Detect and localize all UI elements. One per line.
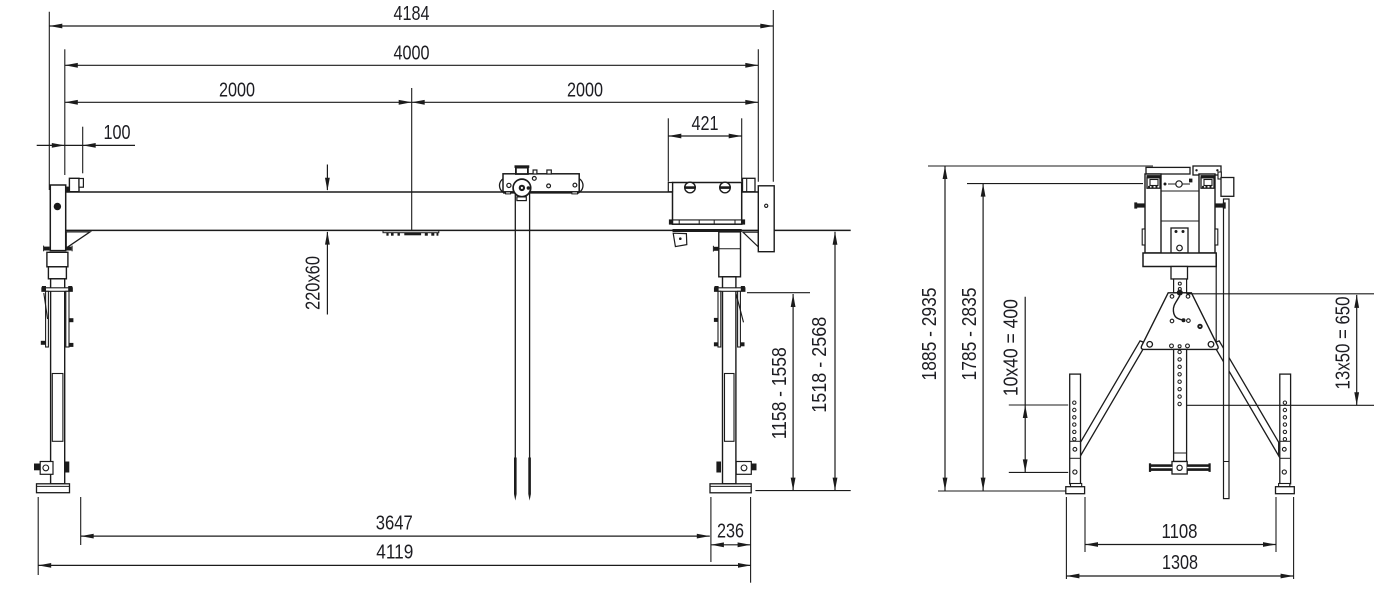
extension line rv foot inner right xyxy=(1275,497,1277,552)
weld wedge xyxy=(66,187,69,192)
trolley bottom edge xyxy=(503,191,579,193)
beam top flange line xyxy=(66,191,759,193)
left foot post xyxy=(1070,374,1081,484)
beam section top plate left xyxy=(1146,167,1190,174)
svg-text:1108: 1108 xyxy=(1162,521,1198,543)
right foot pad xyxy=(1279,484,1290,487)
pivot plate edge xyxy=(1215,255,1217,349)
right foot post xyxy=(1280,374,1291,484)
svg-text:13x50 = 650: 13x50 = 650 xyxy=(1333,297,1355,390)
extension line top 2835 xyxy=(967,183,1143,185)
trolley wheel right xyxy=(567,178,583,194)
svg-text:4184: 4184 xyxy=(394,3,430,25)
tilted bracket xyxy=(673,233,687,246)
svg-text:4119: 4119 xyxy=(376,542,413,564)
dimension 421 xyxy=(668,113,741,138)
hoist hook tip right xyxy=(528,458,531,495)
left leg collar xyxy=(47,252,68,266)
trolley body xyxy=(503,174,579,192)
carriage strip nubs xyxy=(669,219,673,224)
right leg collar pin xyxy=(714,247,719,251)
dimension 2000 right xyxy=(412,79,759,104)
hoist pulley xyxy=(513,179,531,197)
extension line ground right view xyxy=(938,490,1066,492)
dimension 4119 xyxy=(38,542,751,568)
dimension 1518-2568 xyxy=(809,232,838,491)
triangle holes top xyxy=(1170,295,1174,299)
handle left xyxy=(1151,464,1172,471)
left clamp plate outer xyxy=(46,291,49,347)
side tab right xyxy=(1215,229,1218,245)
carriage strip line xyxy=(673,219,742,221)
beam end stop left xyxy=(69,178,79,191)
left foot pad xyxy=(1071,484,1082,487)
extension line holes bottom xyxy=(1009,471,1068,473)
triangle holes bottom xyxy=(1147,342,1153,348)
beam section top plate right xyxy=(1193,166,1221,175)
right tower xyxy=(1199,174,1215,253)
left leg tube xyxy=(51,279,65,484)
dimension 4000 xyxy=(65,42,759,67)
tower mid lines xyxy=(1161,190,1199,192)
end plate xyxy=(758,186,774,252)
extension line beam left end xyxy=(64,49,66,175)
trolley feet tabs xyxy=(506,192,511,194)
dimension 3647 xyxy=(81,513,710,539)
centerline beam middle xyxy=(411,88,413,231)
left tower xyxy=(1145,174,1161,253)
post upper xyxy=(1174,279,1187,293)
svg-text:1308: 1308 xyxy=(1162,552,1198,574)
handle block xyxy=(1172,462,1187,475)
extension line rv foot inner left xyxy=(1084,497,1086,552)
carriage lower dark band xyxy=(673,229,742,232)
dimension 1108 xyxy=(1085,521,1276,547)
dimension 13x50=650 xyxy=(1333,295,1360,405)
svg-text:1518 - 2568: 1518 - 2568 xyxy=(809,317,831,413)
dimension 2000 left xyxy=(65,79,412,104)
extension line clamp top xyxy=(747,292,810,294)
svg-text:236: 236 xyxy=(717,521,744,543)
triangle holes mid xyxy=(1170,319,1174,323)
dimension 4184 xyxy=(49,3,773,28)
side tab left xyxy=(1142,229,1145,245)
left bottom bracket xyxy=(40,462,53,475)
extension line foot left inner xyxy=(80,497,82,545)
right hanger bracket xyxy=(1218,172,1221,179)
dimension 10x40=400 xyxy=(1000,297,1027,473)
hoist chain right xyxy=(529,193,531,458)
central post xyxy=(1174,349,1187,461)
dimension 236 xyxy=(711,521,751,548)
extension line post hole xyxy=(1186,404,1374,406)
triangle plate xyxy=(1141,293,1218,350)
hoist collar xyxy=(517,197,526,201)
right leg tube xyxy=(723,277,736,484)
post stub xyxy=(1171,267,1188,280)
right hanger box xyxy=(1221,178,1234,197)
side bolt right xyxy=(1215,203,1223,207)
extension line foot right inner xyxy=(710,497,712,562)
hoist hook tip left xyxy=(514,458,517,495)
carriage right bracket xyxy=(743,178,756,191)
carriage box xyxy=(673,183,742,225)
dimension 220x60 xyxy=(302,165,330,315)
carriage left tab xyxy=(668,183,672,192)
dimension 1885-2935 xyxy=(919,166,948,491)
svg-text:3647: 3647 xyxy=(376,513,413,535)
extension line foot right outer xyxy=(750,497,752,583)
handle right xyxy=(1187,464,1208,471)
side bolt left xyxy=(1137,203,1145,207)
right gusset xyxy=(743,232,758,247)
apex pin xyxy=(1177,290,1183,296)
svg-text:1785 - 2835: 1785 - 2835 xyxy=(959,288,981,381)
extension line apex hole xyxy=(1186,293,1374,295)
triangle latch xyxy=(1197,324,1202,329)
dimension 1785-2835 xyxy=(959,184,986,491)
dimension 1158-1558 xyxy=(769,294,796,491)
extension line holes top xyxy=(1009,404,1068,406)
beam bottom flange line xyxy=(66,229,851,231)
svg-text:4000: 4000 xyxy=(394,42,430,64)
carriage bolt left xyxy=(685,182,696,193)
trolley bolts xyxy=(532,177,536,181)
svg-text:220x60: 220x60 xyxy=(302,256,324,310)
svg-text:421: 421 xyxy=(692,113,719,135)
right strut xyxy=(1213,341,1279,456)
left tower bracket xyxy=(1147,175,1161,178)
left leg reducer xyxy=(48,267,66,279)
center bolt xyxy=(1168,183,1190,185)
svg-text:100: 100 xyxy=(104,122,131,144)
right foot plate xyxy=(710,484,751,493)
trolley wheel left xyxy=(500,178,516,194)
left inner tube mark xyxy=(52,374,63,442)
dimension 100 xyxy=(37,122,135,148)
left foot plate xyxy=(37,484,70,493)
right inner tube mark xyxy=(725,374,735,442)
trolley top tabs xyxy=(533,170,537,174)
left clamp plate inner xyxy=(66,291,69,347)
extension line top 2935 xyxy=(928,165,1153,167)
hoist chain left xyxy=(514,193,516,458)
right clamp crossbar xyxy=(715,288,745,292)
extension line beam right end xyxy=(757,49,759,181)
extension line rv foot outer right xyxy=(1293,497,1295,579)
left clamp bolts xyxy=(41,341,46,345)
left gusset plate xyxy=(66,232,90,248)
left leg pivot pin xyxy=(54,203,61,210)
right clamp plate inner xyxy=(718,291,721,347)
svg-text:10x40 = 400: 10x40 = 400 xyxy=(1000,299,1022,396)
extension line left end overall xyxy=(48,12,50,190)
extension line rv foot outer left xyxy=(1065,497,1067,579)
left strut xyxy=(1081,341,1147,456)
svg-text:2000: 2000 xyxy=(567,79,603,101)
right bottom bracket xyxy=(736,462,751,475)
trolley suspension cap xyxy=(515,165,530,168)
svg-text:1885 - 2935: 1885 - 2935 xyxy=(919,288,941,381)
svg-text:1158 - 1558: 1158 - 1558 xyxy=(769,347,791,439)
left clamp diagonal xyxy=(44,293,48,319)
svg-text:2000: 2000 xyxy=(219,79,255,101)
central block xyxy=(1171,228,1188,253)
bottom plate xyxy=(1143,253,1216,267)
lifting bar xyxy=(1224,199,1230,499)
right tower bracket xyxy=(1201,175,1215,178)
left leg collar pins xyxy=(44,247,50,251)
carriage bolt right xyxy=(720,182,731,193)
extension line carriage right xyxy=(741,118,743,181)
right clamp diagonal xyxy=(736,294,743,322)
trolley small wheel xyxy=(507,183,511,187)
extension line foot left outer xyxy=(37,497,39,575)
left leg post xyxy=(50,185,65,251)
right clamp plate outer xyxy=(738,291,741,347)
center nut xyxy=(1189,179,1192,183)
extension line 100 offset xyxy=(82,127,84,174)
extension line right end overall xyxy=(772,10,774,182)
right leg upper tube xyxy=(719,232,741,277)
right clamp bolts xyxy=(714,318,718,322)
extension line carriage left xyxy=(667,118,669,181)
festoon rail under beam xyxy=(383,231,439,236)
triangle cable xyxy=(1173,296,1181,320)
left clamp crossbar xyxy=(42,288,72,292)
dimension 1308 xyxy=(1066,552,1293,578)
extension line ground left view xyxy=(755,490,850,492)
